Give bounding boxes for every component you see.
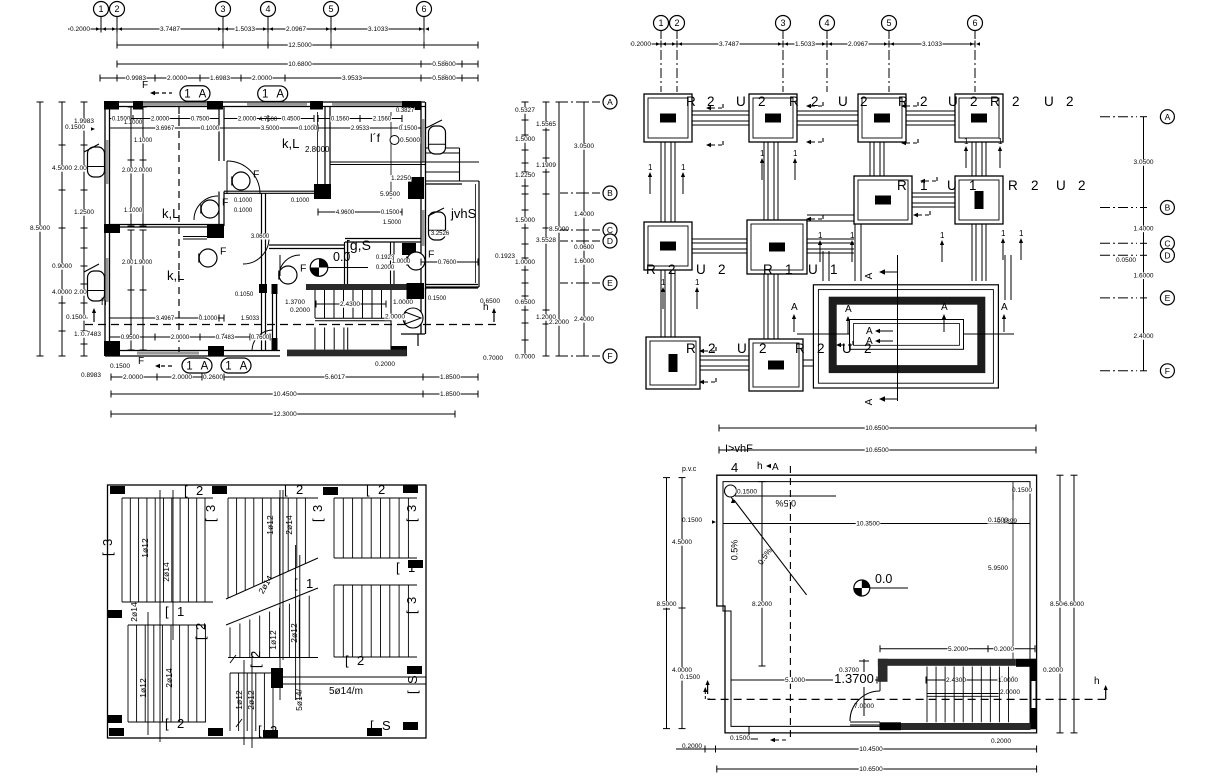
svg-text:1.2250: 1.2250 — [391, 175, 411, 182]
rebar panel D (right-mid) — [333, 585, 335, 657]
svg-text:10.6500: 10.6500 — [865, 425, 889, 432]
dims near stair — [284, 299, 305, 306]
svg-text:1.8500: 1.8500 — [440, 374, 460, 381]
roof stair top beam — [878, 659, 1016, 666]
svg-text:0.1050: 0.1050 — [235, 292, 254, 298]
left dimension line 2.0000/1.2500 — [83, 102, 85, 356]
svg-text:R: R — [646, 262, 656, 277]
svg-text:0.7483: 0.7483 — [81, 331, 101, 338]
svg-text:1: 1 — [661, 278, 666, 287]
tie beams horizontal — [692, 114, 749, 116]
svg-text:A: A — [1165, 112, 1171, 122]
svg-text:F: F — [138, 356, 144, 367]
svg-text:0.1000: 0.1000 — [299, 126, 318, 132]
svg-text:2.0000: 2.0000 — [167, 75, 187, 82]
top dim 10.6500 row2 — [719, 449, 1036, 451]
svg-text:[: [ — [396, 560, 400, 575]
svg-text:1: 1 — [306, 576, 313, 591]
svg-text:2.2000: 2.2000 — [549, 319, 569, 326]
dashed section line (roof) — [708, 698, 1108, 700]
svg-text:2ø14: 2ø14 — [284, 515, 294, 535]
svg-text:0.2000: 0.2000 — [1043, 667, 1063, 674]
svg-text:R: R — [897, 178, 907, 193]
right letter stack (foundation) — [1143, 117, 1145, 371]
svg-text:0.1000: 0.1000 — [234, 208, 253, 214]
svg-text:1: 1 — [177, 604, 184, 619]
exterior bottom wall — [105, 350, 280, 352]
svg-text:2: 2 — [114, 4, 119, 14]
svg-text:1: 1 — [964, 137, 969, 146]
svg-text:0.1500: 0.1500 — [65, 124, 85, 131]
dimension row 0.9983/2.0000/... — [100, 77, 478, 79]
svg-text:0.0600: 0.0600 — [574, 244, 594, 251]
svg-text:R: R — [795, 341, 805, 356]
svg-text:2.0000: 2.0000 — [171, 335, 190, 341]
svg-text:2: 2 — [920, 94, 928, 109]
stair block: top hatched beam — [306, 284, 407, 290]
svg-text:1.5033: 1.5033 — [235, 26, 255, 33]
svg-text:[: [ — [203, 518, 218, 522]
svg-text:[: [ — [370, 718, 374, 733]
svg-text:2: 2 — [1031, 178, 1039, 193]
svg-text:U: U — [947, 178, 957, 193]
svg-text:F: F — [220, 245, 226, 257]
footing F13 — [858, 94, 906, 142]
level marker 0.0 (roof) — [854, 580, 870, 596]
svg-text:1.1000: 1.1000 — [124, 208, 143, 214]
stair pit outer — [813, 285, 998, 388]
svg-text:R: R — [686, 94, 696, 109]
roof stair right wall — [1030, 659, 1037, 730]
svg-text:0.2600: 0.2600 — [203, 374, 223, 381]
svg-text:[: [ — [284, 482, 288, 497]
svg-text:1.5000: 1.5000 — [515, 217, 535, 224]
right dims roof — [1059, 475, 1061, 733]
dashed vertical line — [789, 466, 791, 742]
svg-text:E: E — [1165, 293, 1171, 303]
svg-text:2.4000: 2.4000 — [574, 316, 594, 323]
svg-text:2: 2 — [668, 262, 676, 277]
svg-text:h: h — [757, 461, 763, 472]
svg-text:[: [ — [193, 636, 208, 640]
svg-text:1ø12: 1ø12 — [138, 678, 148, 698]
dimension row 10.6800 — [117, 63, 478, 65]
svg-text:1.3700: 1.3700 — [285, 299, 305, 306]
svg-text:2.0000: 2.0000 — [123, 374, 143, 381]
dash-dot leaders to letter bubbles — [560, 101, 601, 103]
svg-text:1.0000: 1.0000 — [393, 299, 413, 306]
svg-text:E: E — [607, 278, 613, 288]
svg-text:F: F — [142, 80, 148, 91]
inner dim 10.3500 — [723, 523, 1030, 525]
bottom dimension row 10.4500 — [111, 393, 478, 395]
footing F14 — [955, 94, 1003, 142]
svg-text:2.0000: 2.0000 — [252, 75, 272, 82]
svg-text:1: 1 — [658, 18, 663, 28]
svg-text:2: 2 — [357, 653, 364, 668]
svg-text:1.8500: 1.8500 — [440, 391, 460, 398]
svg-text:F: F — [1165, 366, 1170, 376]
svg-text:1: 1 — [186, 360, 192, 372]
stair right wing walls — [420, 288, 422, 334]
svg-text:[: [ — [310, 518, 325, 522]
jvhS bottom wall — [425, 284, 478, 286]
svg-text:2.0000: 2.0000 — [172, 374, 192, 381]
door circle with triangle (wing) — [403, 308, 423, 328]
svg-text:0.5%: 0.5% — [775, 498, 796, 508]
svg-text:U: U — [1044, 94, 1054, 109]
svg-text:3.6967: 3.6967 — [156, 126, 175, 132]
svg-text:0.1500: 0.1500 — [399, 126, 418, 132]
dimension row 3.7487/1.5033/2.0967/3.1033 — [68, 28, 101, 30]
svg-text:0.7600: 0.7600 — [251, 335, 270, 341]
stair block: bottom hatched beam — [287, 350, 407, 357]
svg-text:0.1000: 0.1000 — [234, 198, 253, 204]
svg-text:1: 1 — [818, 231, 823, 240]
stair landing lines — [315, 317, 391, 319]
rebar panel C (top-right) — [333, 498, 335, 558]
svg-text:6.6000: 6.6000 — [1064, 601, 1084, 608]
svg-text:S: S — [382, 718, 391, 733]
svg-text:0.8983: 0.8983 — [81, 372, 101, 379]
svg-text:1.2500: 1.2500 — [74, 209, 94, 216]
svg-text:F: F — [428, 248, 434, 260]
svg-text:2ø12: 2ø12 — [246, 690, 256, 710]
svg-text:[: [ — [184, 483, 188, 498]
svg-text:D: D — [1164, 250, 1170, 260]
svg-text:8.5000: 8.5000 — [30, 225, 50, 232]
svg-text:U: U — [1056, 178, 1066, 193]
beam outer trench outlines — [660, 142, 662, 222]
exterior right wall — [420, 102, 422, 290]
vertical section line A-A — [897, 255, 899, 401]
svg-text:0.2000: 0.2000 — [991, 738, 1011, 745]
svg-text:U: U — [736, 94, 746, 109]
grid bubbles 1-6 (foundation) — [654, 16, 669, 31]
interior wall grid3 vertical — [218, 107, 220, 162]
svg-text:2: 2 — [1066, 94, 1074, 109]
svg-text:4: 4 — [265, 4, 270, 14]
svg-text:1: 1 — [695, 278, 700, 287]
svg-text:0.6500: 0.6500 — [515, 299, 535, 306]
section stadium bottom 1 — [182, 358, 212, 373]
svg-text:2: 2 — [860, 94, 868, 109]
bottom dimension row 1 — [111, 376, 478, 378]
door arc room k,L top — [227, 161, 260, 194]
dashed hook arrows — [706, 106, 711, 111]
entry steps top right — [426, 152, 460, 154]
toilet fixtures (circle+F) — [232, 172, 250, 190]
svg-text:10.6500: 10.6500 — [865, 447, 889, 454]
svg-text:3: 3 — [203, 505, 218, 512]
svg-text:F: F — [300, 262, 306, 274]
svg-text:3.7487: 3.7487 — [160, 26, 180, 33]
wall y=247 horizontal — [269, 244, 345, 246]
svg-text:3.5000: 3.5000 — [261, 126, 280, 132]
svg-text:R: R — [686, 341, 696, 356]
svg-text:[: [ — [405, 690, 420, 694]
svg-text:C: C — [1164, 238, 1170, 248]
svg-text:1.5565: 1.5565 — [536, 121, 556, 128]
door sill wall — [850, 721, 880, 723]
svg-text:10.3500: 10.3500 — [856, 521, 880, 528]
svg-text:1.1909: 1.1909 — [536, 162, 556, 169]
svg-text:[: [ — [165, 716, 169, 731]
svg-text:0.0: 0.0 — [875, 572, 892, 586]
svg-text:1.5033: 1.5033 — [795, 41, 815, 48]
svg-text:1ø12: 1ø12 — [268, 630, 278, 650]
black wall chunk bathroom — [207, 225, 224, 238]
svg-text:1.1000: 1.1000 — [134, 138, 153, 144]
door arc (roof stair) — [850, 691, 880, 721]
footing F23 (R1U1) — [854, 176, 912, 224]
svg-text:0.1560: 0.1560 — [331, 116, 350, 122]
footing F31 — [644, 222, 692, 270]
svg-text:1: 1 — [760, 149, 765, 158]
svg-text:5: 5 — [328, 4, 333, 14]
svg-text:B: B — [1165, 203, 1171, 213]
svg-text:2.0000: 2.0000 — [385, 314, 405, 321]
diagonal stair lines — [226, 558, 318, 599]
jvhS room outline — [426, 183, 463, 185]
grid bubbles 1-6 — [94, 2, 109, 17]
svg-text:0.7600: 0.7600 — [438, 260, 457, 266]
svg-text:A: A — [864, 272, 875, 279]
svg-text:k,L: k,L — [167, 268, 184, 283]
door arcs — [194, 196, 218, 220]
left small arrow — [706, 680, 710, 685]
svg-text:0.7500: 0.7500 — [191, 116, 210, 122]
roof stair steps — [926, 667, 928, 723]
svg-text:[: [ — [165, 604, 169, 619]
left dims roof — [681, 478, 683, 729]
svg-text:3.0600: 3.0600 — [251, 234, 270, 240]
svg-text:0.2000: 0.2000 — [376, 265, 395, 271]
svg-text:0.5%: 0.5% — [730, 540, 740, 561]
svg-text:[: [ — [366, 482, 370, 497]
svg-text:8.2000: 8.2000 — [752, 601, 772, 608]
roof inner wall — [723, 482, 1030, 727]
rebar panel F (bottom-mid) — [229, 673, 231, 731]
svg-text:A: A — [1001, 302, 1008, 313]
wall right of kitchen y=162 — [330, 161, 479, 163]
svg-text:4: 4 — [824, 18, 829, 28]
svg-text:5.9500: 5.9500 — [380, 191, 400, 198]
svg-text:A: A — [607, 97, 613, 107]
svg-text:2.4300: 2.4300 — [340, 301, 360, 308]
svg-text:0.2000: 0.2000 — [375, 361, 395, 368]
svg-text:A: A — [864, 398, 875, 405]
svg-text:1: 1 — [184, 88, 190, 100]
svg-text:F: F — [253, 168, 259, 180]
svg-text:10.6800: 10.6800 — [288, 61, 312, 68]
svg-text:0.1500: 0.1500 — [682, 517, 702, 524]
svg-text:0.58600: 0.58600 — [432, 75, 456, 82]
svg-text:U: U — [737, 341, 747, 356]
svg-text:3.2526: 3.2526 — [431, 231, 450, 237]
svg-text:3.0500: 3.0500 — [574, 143, 594, 150]
svg-text:1.5000: 1.5000 — [383, 220, 402, 226]
svg-text:1: 1 — [940, 231, 945, 240]
rebar panel E (bottom-left) — [127, 625, 129, 722]
svg-text:R: R — [789, 94, 799, 109]
svg-text:1: 1 — [681, 163, 686, 172]
svg-text:1.6983: 1.6983 — [210, 75, 230, 82]
svg-text:1ø12: 1ø12 — [140, 538, 150, 558]
svg-text:1: 1 — [830, 262, 838, 277]
slab outline — [108, 485, 427, 738]
svg-text:12.5000: 12.5000 — [288, 42, 312, 49]
svg-text:0.7000: 0.7000 — [515, 354, 535, 361]
svg-text:2: 2 — [193, 623, 208, 630]
landing lines — [927, 693, 999, 695]
svg-text:0.1000: 0.1000 — [199, 316, 218, 322]
svg-text:2ø14: 2ø14 — [129, 602, 139, 622]
dash-dot grid leaders — [660, 31, 662, 39]
svg-text:U: U — [696, 262, 706, 277]
svg-text:1: 1 — [648, 163, 653, 172]
svg-text:0.9500: 0.9500 — [121, 335, 140, 341]
svg-text:R: R — [763, 262, 773, 277]
svg-text:B: B — [607, 188, 613, 198]
slab columns — [110, 486, 125, 494]
bottom-left notch detail — [749, 726, 758, 739]
svg-text:1: 1 — [408, 560, 415, 575]
interior wall grid5 vertical — [324, 107, 326, 185]
svg-text:2: 2 — [296, 482, 303, 497]
stair right inner wall — [390, 290, 392, 350]
svg-text:0.0: 0.0 — [333, 250, 350, 264]
bottom dim 10.4500 — [716, 748, 1037, 750]
svg-text:1: 1 — [969, 178, 977, 193]
svg-text:A: A — [276, 89, 284, 101]
svg-text:1.0000: 1.0000 — [515, 259, 535, 266]
svg-text:0.7483: 0.7483 — [216, 335, 235, 341]
svg-text:0.3700: 0.3700 — [839, 667, 859, 674]
svg-text:0.1500: 0.1500 — [66, 314, 86, 321]
svg-text:2.0967: 2.0967 — [848, 41, 868, 48]
svg-text:1.0000: 1.0000 — [392, 259, 411, 265]
svg-text:5.2000: 5.2000 — [948, 646, 968, 653]
svg-text:h: h — [101, 297, 107, 308]
svg-text:[: [ — [100, 552, 115, 556]
svg-text:R: R — [990, 94, 1000, 109]
svg-text:S: S — [405, 675, 420, 684]
svg-text:10.4500: 10.4500 — [273, 391, 297, 398]
interior wall x=263 vertical — [261, 193, 263, 350]
letter bubbles A-F (TL) — [603, 95, 617, 109]
svg-text:A: A — [941, 302, 948, 313]
svg-text:3: 3 — [220, 4, 225, 14]
svg-text:3.0500: 3.0500 — [1134, 159, 1154, 166]
grid leader lines — [100, 17, 102, 29]
svg-text:2: 2 — [718, 262, 726, 277]
window symbol left wall upper — [88, 147, 105, 177]
svg-text:2ø12: 2ø12 — [289, 623, 299, 643]
stair left wall (roof) — [878, 659, 888, 682]
svg-text:2: 2 — [708, 341, 716, 356]
svg-text:7.0000: 7.0000 — [854, 703, 874, 710]
svg-text:4.9600: 4.9600 — [336, 210, 355, 216]
svg-text:[: [ — [294, 576, 298, 591]
svg-text:2.8000: 2.8000 — [305, 145, 330, 154]
svg-text:4.5000: 4.5000 — [52, 165, 72, 172]
top dim 10.6500 row1 — [719, 427, 1036, 429]
tie beams vertical — [664, 142, 666, 222]
svg-text:[: [ — [404, 610, 419, 614]
svg-text:3.1033: 3.1033 — [922, 41, 942, 48]
svg-text:1: 1 — [98, 4, 103, 14]
svg-text:0.1500: 0.1500 — [428, 296, 447, 302]
lower niche wall — [183, 236, 207, 238]
svg-text:6: 6 — [421, 4, 426, 14]
section stadium bottom 2 — [221, 358, 251, 373]
stair steps lower flight — [314, 328, 316, 350]
svg-text:5.9500: 5.9500 — [988, 565, 1008, 572]
svg-text:10.6500: 10.6500 — [859, 766, 883, 773]
svg-text:2.9533: 2.9533 — [351, 126, 370, 132]
svg-text:1: 1 — [225, 360, 231, 372]
svg-text:[: [ — [248, 664, 263, 668]
svg-text:2: 2 — [970, 94, 978, 109]
svg-text:0.2000: 0.2000 — [631, 41, 651, 48]
svg-text:0.1500: 0.1500 — [381, 210, 400, 216]
svg-text:[: [ — [258, 723, 262, 738]
interior wall left mid horizontal — [110, 224, 225, 226]
svg-text:2: 2 — [817, 341, 825, 356]
svg-text:2: 2 — [177, 716, 184, 731]
svg-text:3.4967: 3.4967 — [156, 316, 175, 322]
stair steps upper flight — [314, 290, 316, 318]
top wall window bands — [138, 103, 208, 106]
svg-text:1ø12: 1ø12 — [265, 515, 275, 535]
svg-text:2: 2 — [811, 94, 819, 109]
svg-text:5ø14/m: 5ø14/m — [329, 686, 363, 697]
svg-text:0.1923: 0.1923 — [495, 253, 515, 260]
svg-text:0.1000: 0.1000 — [291, 198, 310, 204]
roof outer wall — [717, 475, 1037, 733]
bottom dim 10.6500 — [717, 768, 1037, 770]
tick marks slab — [230, 655, 236, 663]
stair dims — [880, 648, 1035, 650]
svg-text:0.5327: 0.5327 — [515, 107, 535, 114]
svg-text:0.1500: 0.1500 — [680, 674, 700, 681]
svg-text:2.0967: 2.0967 — [286, 26, 306, 33]
svg-text:k,L: k,L — [162, 206, 179, 221]
rebar panel B (top-mid) — [227, 498, 229, 598]
svg-text:0.3827: 0.3827 — [396, 108, 415, 114]
svg-text:8.5000: 8.5000 — [657, 601, 677, 608]
svg-text:h: h — [1094, 676, 1100, 687]
svg-text:1: 1 — [1001, 229, 1006, 238]
svg-text:3: 3 — [404, 505, 419, 512]
svg-text:0.1500: 0.1500 — [730, 735, 750, 742]
svg-text:1: 1 — [1019, 229, 1024, 238]
left dimension line 8.5000 — [39, 102, 41, 356]
svg-text:1.6000: 1.6000 — [1134, 272, 1154, 279]
svg-text:A: A — [772, 462, 779, 473]
footing F12 — [749, 94, 797, 142]
right inner dims — [987, 565, 1008, 572]
slope arrow — [734, 500, 807, 595]
dashed section line horizontal y=324.5 — [85, 324, 500, 326]
svg-text:2.0000: 2.0000 — [134, 168, 153, 174]
svg-text:0.2000: 0.2000 — [70, 26, 90, 33]
column right wall mid — [408, 177, 424, 199]
svg-text:2ø14: 2ø14 — [164, 668, 174, 688]
svg-text:h: h — [483, 302, 489, 313]
svg-text:0.4500: 0.4500 — [282, 116, 301, 122]
